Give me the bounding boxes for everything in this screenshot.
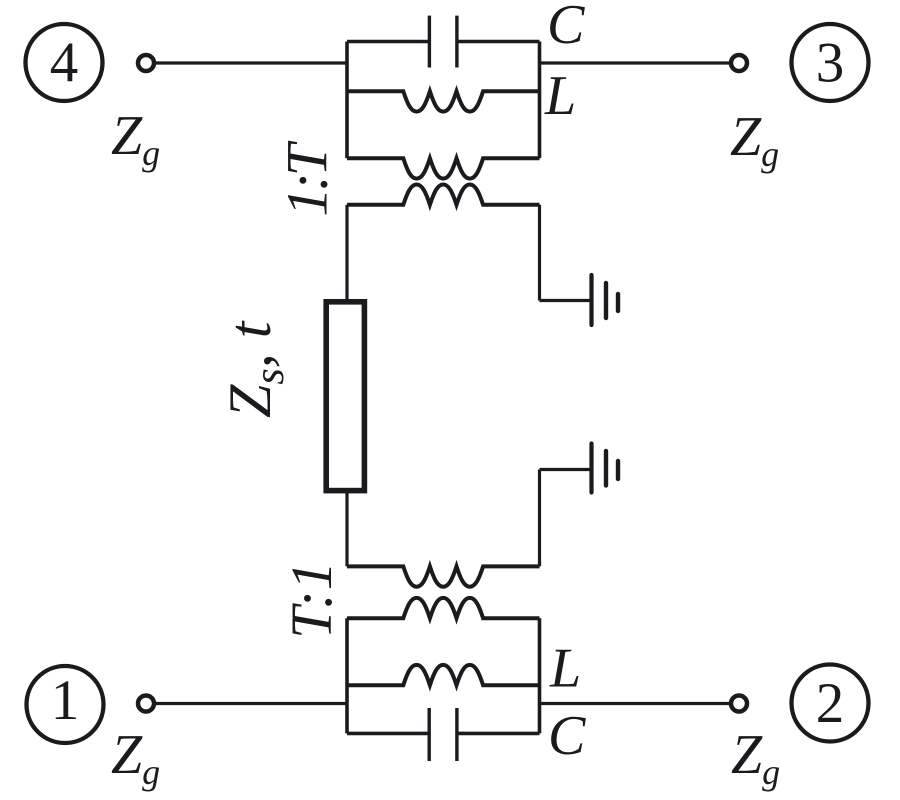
- capacitor C top: left wire: [347, 40, 429, 44]
- wire port 4 to box: [155, 61, 348, 64]
- ground bottom bar 3: [616, 461, 620, 479]
- capacitor C top: right wire: [457, 40, 540, 44]
- terminal port 4: [138, 55, 154, 71]
- ground bottom bar 2: [604, 451, 608, 486]
- wire secondary left to transmission line: [345, 205, 348, 300]
- ground top bar 3: [616, 294, 620, 311]
- svg-text:3: 3: [816, 32, 845, 95]
- capacitor C top: left plate: [428, 16, 431, 68]
- wire transmission line to bottom transformer: [345, 493, 348, 566]
- svg-text:C: C: [547, 0, 585, 56]
- port 3 circle: [792, 24, 869, 101]
- port 4 circle: [26, 24, 103, 101]
- terminal port 1: [138, 696, 154, 712]
- transformer bottom secondary winding: [347, 566, 540, 586]
- ground bottom bar 1: [589, 444, 593, 493]
- bottom box right edge: [538, 618, 542, 733]
- capacitor C bottom: left wire: [347, 732, 429, 736]
- svg-text:C: C: [548, 705, 586, 767]
- capacitor C bottom: left plate: [428, 708, 431, 761]
- top box left edge: [345, 42, 349, 159]
- wire box to port 2: [540, 702, 731, 705]
- port 2 circle: [792, 665, 869, 742]
- terminal port 2: [731, 696, 747, 712]
- port 1 circle: [27, 666, 104, 743]
- transformer top secondary winding: [347, 185, 540, 205]
- svg-text:L: L: [549, 638, 581, 700]
- ground top bar 1: [589, 275, 593, 325]
- capacitor C bottom: right plate: [455, 708, 458, 761]
- capacitor C bottom: right wire: [457, 732, 540, 736]
- svg-text:1:T: 1:T: [275, 140, 340, 216]
- svg-text:L: L: [544, 65, 576, 127]
- terminal port 3: [731, 55, 747, 71]
- transmission line Zs: [326, 302, 364, 491]
- svg-text:1: 1: [51, 669, 80, 732]
- wire secondary right down: [538, 205, 541, 301]
- transformer top primary winding: [347, 158, 540, 178]
- wire to bottom ground: [540, 468, 591, 471]
- wire box to port 3: [540, 61, 731, 64]
- inductor L top: [347, 91, 540, 111]
- svg-text:Zs, t: Zs, t: [217, 320, 293, 418]
- wire to top ground: [540, 299, 591, 302]
- transformer bottom primary winding: [347, 598, 540, 618]
- top box right edge: [538, 42, 542, 159]
- svg-text:4: 4: [50, 32, 79, 95]
- svg-text:2: 2: [816, 672, 845, 735]
- bottom box left edge: [345, 618, 349, 733]
- ground top bar 2: [604, 283, 608, 318]
- inductor L bottom: [347, 665, 540, 685]
- capacitor C top: right plate: [455, 16, 458, 68]
- wire bottom secondary right up: [538, 470, 541, 567]
- wire port 1 to box: [155, 702, 348, 705]
- svg-text:T:1: T:1: [279, 561, 344, 638]
